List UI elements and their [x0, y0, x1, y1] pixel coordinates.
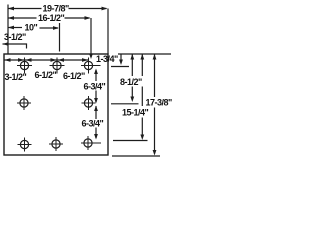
right reference line (plate top extension) [118, 53, 171, 55]
arrowhead 17-3/8 up [153, 54, 157, 60]
internal dim line row1 [5, 59, 89, 61]
arrowhead 8-1/2 down [130, 97, 134, 103]
hole A1 [20, 61, 28, 69]
dim line 15-1/4 upper segment [141, 54, 143, 76]
internal dim arrow from col A [26, 58, 32, 62]
arrowhead 16-1/2 left [8, 16, 14, 20]
1-3/4 arrow line [120, 55, 122, 63]
internal dim arrow into col A [18, 58, 24, 62]
hole C1 [84, 61, 92, 69]
svg-text:6-1/2": 6-1/2" [35, 70, 57, 80]
arrowhead 15-1/4 down [140, 135, 144, 141]
dim line 8-1/2 upper segment [131, 54, 133, 76]
dim line 19-7/8 right segment [69, 8, 107, 10]
arrowhead 1-3/4 down [119, 60, 123, 66]
hole A2 [20, 99, 28, 107]
arrowhead 16-1/2 right [85, 16, 91, 20]
dim line 15-1/4 bottom tick [113, 140, 148, 142]
dim line 17-3/8 lower segment [154, 108, 156, 154]
extension line 19-7/8 down to plate corner [107, 9, 109, 55]
hole row1 right extension line [111, 66, 129, 68]
dim line 3-1/2 with corner down [3, 44, 27, 49]
arrowhead 10 left [8, 26, 14, 30]
hole B1 crosshair [56, 58, 58, 74]
hole B1 [53, 61, 61, 69]
hole B3 [52, 140, 60, 148]
dim line 15-1/4 middle segment [141, 87, 143, 107]
dim line 10 right segment [40, 27, 59, 29]
internal dim arrow from col B [58, 58, 64, 62]
dim line 17-3/8 bottom tick [112, 155, 160, 157]
dim line 8-1/2 lower segment [131, 87, 133, 101]
hole C1 crosshair [88, 58, 90, 74]
svg-text:6-3/4": 6-3/4" [82, 119, 104, 129]
hole C2 crosshair [88, 96, 90, 110]
svg-text:3-1/2": 3-1/2" [5, 72, 27, 82]
hole C3 [84, 139, 92, 147]
internal dim arrow at plate left edge [5, 58, 11, 62]
arrowhead 6-3/4 no1 down [94, 98, 98, 104]
svg-text:16-1/2": 16-1/2" [38, 13, 65, 23]
dim line 15-1/4 lower segment [141, 118, 143, 138]
arrowhead 19-7/8 right [102, 7, 108, 11]
internal dim arrow into col C [82, 58, 88, 62]
svg-text:6-1/2": 6-1/2" [63, 71, 85, 81]
hole A3 crosshair [24, 138, 26, 152]
svg-text:8-1/2": 8-1/2" [120, 77, 142, 87]
dim line 16-1/2 right segment [65, 17, 90, 19]
hole A3 [20, 140, 28, 148]
arrowhead 16-1/2 ext down [89, 54, 93, 60]
col C dim 6-3/4 fourth segment [95, 128, 97, 139]
svg-text:15-1/4": 15-1/4" [122, 108, 149, 118]
plate outline [4, 54, 108, 155]
arrowhead 6-3/4 no1 up [94, 69, 98, 75]
dim line 19-7/8 left segment [8, 8, 42, 10]
extension line 10 vertical [59, 23, 61, 52]
internal dim arrow into col B [51, 58, 57, 62]
svg-text:10": 10" [25, 23, 38, 33]
arrowhead 10 right [53, 26, 59, 30]
col C dim 6-3/4 upper segment [95, 70, 97, 81]
arrowhead 19-7/8 left [8, 7, 14, 11]
dim line 10 left segment [8, 27, 22, 29]
hole A2 crosshair [23, 96, 25, 110]
svg-text:19-7/8": 19-7/8" [43, 4, 70, 14]
svg-text:6-3/4": 6-3/4" [84, 82, 106, 92]
dim line 16-1/2 left segment [8, 17, 37, 19]
svg-text:1-3/4": 1-3/4" [96, 54, 118, 64]
svg-text:17-3/8": 17-3/8" [146, 98, 173, 108]
hole C3 crosshair [87, 136, 89, 150]
arrowhead 3-1/2 left [3, 42, 9, 46]
svg-text:3-1/2": 3-1/2" [4, 32, 26, 42]
arrowhead 6-3/4 no2 down [94, 134, 98, 140]
arrowhead 8-1/2 up [130, 54, 134, 60]
hole B3 crosshair [55, 137, 57, 151]
hole C2 [84, 99, 92, 107]
holes: crosshair circles [20, 61, 93, 148]
col C dim 6-3/4 second segment [95, 91, 97, 103]
arrowhead 15-1/4 up [140, 54, 144, 60]
hole row2 right extension line [111, 103, 139, 105]
left extension line [7, 5, 9, 54]
extension line 16-1/2 down to hole row 1 [90, 18, 92, 57]
arrowhead 6-3/4 no2 up [94, 106, 98, 112]
col C dim 6-3/4 third segment [95, 106, 97, 119]
arrowhead 17-3/8 down [153, 150, 157, 156]
hole A1 crosshair [24, 58, 26, 74]
dim line 17-3/8 upper segment [154, 54, 156, 97]
